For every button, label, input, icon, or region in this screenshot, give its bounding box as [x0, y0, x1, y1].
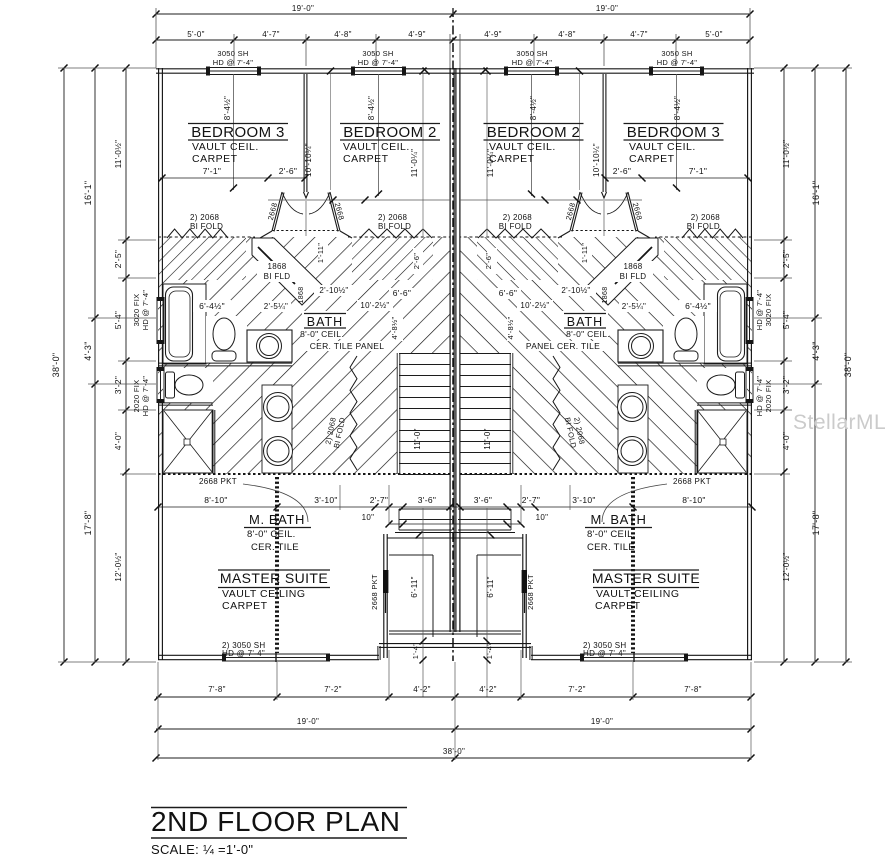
svg-text:1'-11": 1'-11"	[580, 243, 589, 263]
bottom wall master	[531, 654, 752, 656]
svg-text:M. BATH: M. BATH	[591, 512, 647, 527]
svg-text:3'-10": 3'-10"	[572, 495, 595, 505]
svg-text:4'-8": 4'-8"	[558, 30, 575, 39]
toilet 2	[736, 372, 745, 398]
svg-text:17'-8": 17'-8"	[83, 511, 93, 536]
svg-text:2'-10½": 2'-10½"	[319, 286, 348, 295]
sink 1	[629, 334, 654, 359]
bedroom2 closet bifold	[360, 229, 432, 238]
svg-text:2) 2068: 2) 2068	[378, 213, 407, 222]
toilet 1 nook	[663, 316, 704, 363]
svg-text:1868: 1868	[268, 262, 287, 271]
svg-text:10'-2½": 10'-2½"	[360, 301, 389, 310]
1-4 dim	[422, 508, 424, 697]
svg-text:HD @ 7'-4": HD @ 7'-4"	[358, 58, 399, 67]
svg-text:2'-10½": 2'-10½"	[561, 286, 590, 295]
svg-text:PANEL CER. TILE: PANEL CER. TILE	[526, 341, 600, 351]
sink 3	[264, 437, 293, 466]
svg-text:8'-0" CEIL.: 8'-0" CEIL.	[566, 329, 610, 339]
sink 2	[618, 393, 647, 422]
svg-text:12'-0½": 12'-0½"	[114, 552, 123, 581]
svg-text:1868: 1868	[602, 287, 609, 304]
bedroom dim line	[160, 177, 306, 179]
svg-text:4'-8½": 4'-8½"	[390, 316, 399, 339]
svg-text:10'-10¼": 10'-10¼"	[304, 143, 313, 177]
svg-text:CER. TILE: CER. TILE	[251, 542, 299, 553]
party wall centerline	[452, 8, 454, 661]
svg-text:1'-4": 1'-4"	[411, 643, 420, 659]
svg-text:17'-8": 17'-8"	[811, 511, 821, 536]
svg-text:38'-0": 38'-0"	[443, 747, 465, 756]
svg-text:7'-8": 7'-8"	[684, 685, 701, 694]
bathtub	[718, 287, 745, 361]
svg-text:16'-1": 16'-1"	[811, 181, 821, 206]
toilet 2 nook	[163, 368, 213, 403]
svg-text:19'-0": 19'-0"	[596, 4, 618, 13]
svg-text:BI FOLD: BI FOLD	[499, 222, 532, 231]
svg-text:12'-0½": 12'-0½"	[782, 552, 791, 581]
stairwell top wall	[395, 532, 455, 534]
pocket door bar	[383, 570, 388, 593]
svg-text:2) 2068: 2) 2068	[190, 213, 219, 222]
window 3020 FIX	[156, 299, 158, 341]
svg-text:5'-0": 5'-0"	[705, 30, 722, 39]
svg-text:10'-2½": 10'-2½"	[520, 301, 549, 310]
window bed3	[206, 67, 261, 76]
svg-text:2ND FLOOR PLAN: 2ND FLOOR PLAN	[151, 806, 401, 837]
svg-text:5'-4": 5'-4"	[113, 311, 123, 329]
svg-text:19'-0": 19'-0"	[591, 717, 613, 726]
hatch bottom dashed border	[158, 473, 450, 475]
svg-text:7'-8": 7'-8"	[208, 685, 225, 694]
pocket door bar	[522, 570, 527, 593]
svg-text:VAULT CEIL.: VAULT CEIL.	[629, 141, 696, 153]
hall double doors	[628, 192, 638, 231]
lower treads below landing dim	[458, 508, 511, 510]
stairwell west wall	[383, 534, 385, 658]
side extension lines	[58, 67, 156, 69]
svg-text:CER. TILE PANEL: CER. TILE PANEL	[310, 341, 385, 351]
bedroom3 closet bifold	[167, 229, 228, 238]
svg-text:2) 2068: 2) 2068	[503, 213, 532, 222]
stair closet inner walls	[477, 554, 521, 556]
svg-text:BI FOLD: BI FOLD	[378, 222, 411, 231]
svg-text:VAULT CEILING: VAULT CEILING	[596, 588, 680, 600]
svg-text:VAULT CEILING: VAULT CEILING	[222, 588, 306, 600]
stairwell bottom wall	[455, 630, 521, 632]
top wall	[156, 68, 455, 70]
svg-text:BEDROOM 3: BEDROOM 3	[627, 124, 721, 141]
svg-text:1'-4": 1'-4"	[485, 643, 494, 659]
svg-text:BI FOLD: BI FOLD	[190, 222, 223, 231]
svg-text:11'-0¼": 11'-0¼"	[486, 149, 495, 178]
svg-text:7'-2": 7'-2"	[324, 685, 341, 694]
window 2020 FIX	[752, 369, 754, 401]
svg-text:HD @ 7'-4": HD @ 7'-4"	[755, 290, 764, 331]
svg-text:6'-6": 6'-6"	[499, 288, 517, 298]
hatch bottom dashed border	[460, 473, 752, 475]
svg-text:8'-4½": 8'-4½"	[673, 96, 682, 120]
sink counter 1	[618, 330, 663, 362]
mbath dim rows	[455, 506, 752, 508]
leader 2668	[243, 484, 308, 522]
svg-text:4'-7": 4'-7"	[262, 30, 279, 39]
bathtub	[166, 287, 193, 361]
1-4 dim	[486, 508, 488, 697]
svg-text:4'-8½": 4'-8½"	[506, 316, 515, 339]
hall opening dashed sill	[570, 230, 638, 232]
svg-text:BI FLD: BI FLD	[620, 272, 647, 281]
toilet 1	[213, 318, 235, 350]
svg-text:8'-10": 8'-10"	[204, 495, 227, 505]
svg-text:11'-0½": 11'-0½"	[114, 140, 123, 169]
window 2020 FIX	[156, 369, 158, 401]
svg-text:6'-4½": 6'-4½"	[199, 301, 225, 311]
svg-text:3'-6": 3'-6"	[474, 495, 492, 505]
svg-text:CARPET: CARPET	[489, 153, 535, 165]
top dim lines	[156, 13, 750, 15]
svg-text:2'-7": 2'-7"	[522, 495, 540, 505]
svg-text:8'-4½": 8'-4½"	[367, 96, 376, 120]
svg-text:2020 FIX: 2020 FIX	[132, 380, 141, 413]
svg-text:11'-0¼": 11'-0¼"	[410, 149, 419, 178]
stairwell bottom wall	[389, 630, 455, 632]
svg-text:BI FLD: BI FLD	[264, 272, 291, 281]
denser closet hatch strips	[664, 237, 752, 280]
party wall	[459, 68, 461, 632]
svg-text:HD @ 7'-4": HD @ 7'-4"	[141, 290, 150, 331]
stair treads	[460, 353, 513, 474]
svg-text:7'-1": 7'-1"	[203, 166, 221, 176]
bedroom dim line	[604, 177, 750, 179]
window 3020 FIX	[752, 299, 754, 341]
svg-text:BI FOLD: BI FOLD	[687, 222, 720, 231]
vanity counter	[262, 385, 292, 473]
heavy dashed ref master	[631, 477, 635, 653]
svg-text:11'-0½": 11'-0½"	[782, 140, 791, 169]
svg-text:3050 SH: 3050 SH	[362, 49, 393, 58]
window center refs	[676, 74, 678, 190]
svg-text:HD @ 7'-4": HD @ 7'-4"	[141, 376, 150, 417]
svg-text:1868: 1868	[624, 262, 643, 271]
heavy dashed ref master	[275, 477, 279, 653]
hatch top dashed border	[158, 236, 255, 238]
svg-text:BEDROOM 2: BEDROOM 2	[343, 124, 437, 141]
svg-text:VAULT CEIL.: VAULT CEIL.	[192, 141, 259, 153]
svg-text:CARPET: CARPET	[629, 153, 675, 165]
svg-text:8'-0" CEIL.: 8'-0" CEIL.	[587, 529, 636, 540]
svg-text:2'-5¼": 2'-5¼"	[264, 302, 288, 311]
svg-text:HD @ 7'-4": HD @ 7'-4"	[657, 58, 698, 67]
svg-text:VAULT CEIL.: VAULT CEIL.	[489, 141, 556, 153]
svg-text:3'-6": 3'-6"	[418, 495, 436, 505]
sink 3	[618, 437, 647, 466]
svg-text:5'-4": 5'-4"	[781, 311, 791, 329]
svg-text:4'-8": 4'-8"	[334, 30, 351, 39]
bedroom divider wall	[605, 74, 607, 192]
svg-text:11'-0": 11'-0"	[413, 428, 422, 450]
toilet 1	[675, 318, 697, 350]
svg-text:6'-6": 6'-6"	[393, 288, 411, 298]
svg-text:3050 SH: 3050 SH	[217, 49, 248, 58]
sink 2	[264, 393, 293, 422]
hall double doors	[272, 192, 282, 231]
svg-text:6'-4½": 6'-4½"	[685, 301, 711, 311]
denser closet hatch strips	[158, 237, 246, 280]
svg-text:CARPET: CARPET	[343, 153, 389, 165]
svg-text:HD @ 7'-4": HD @ 7'-4"	[755, 376, 764, 417]
svg-text:10'-10¼": 10'-10¼"	[592, 143, 601, 177]
svg-text:3'-2": 3'-2"	[781, 376, 791, 394]
svg-text:4'-9": 4'-9"	[408, 30, 425, 39]
svg-text:8'-10": 8'-10"	[682, 495, 705, 505]
svg-text:4'-3": 4'-3"	[811, 341, 821, 360]
svg-text:10": 10"	[362, 513, 375, 522]
svg-text:SCALE: ¼ =1'-0": SCALE: ¼ =1'-0"	[151, 842, 253, 857]
bottom dim lines	[156, 696, 751, 698]
toilet 2	[166, 372, 175, 398]
svg-text:2'-6": 2'-6"	[484, 253, 493, 269]
master window 3050	[581, 654, 687, 662]
svg-text:BEDROOM 2: BEDROOM 2	[487, 124, 581, 141]
svg-text:2'-5": 2'-5"	[113, 250, 123, 268]
svg-text:4'-9": 4'-9"	[484, 30, 501, 39]
svg-text:1868: 1868	[298, 287, 305, 304]
leader 2668	[602, 484, 667, 522]
bedroom3 closet bifold	[682, 229, 743, 238]
svg-text:2'-5": 2'-5"	[781, 250, 791, 268]
svg-text:4'-2": 4'-2"	[413, 685, 430, 694]
svg-text:2'-6": 2'-6"	[279, 166, 297, 176]
svg-text:11'-0": 11'-0"	[483, 428, 492, 450]
svg-text:2668 PKT: 2668 PKT	[370, 574, 379, 610]
svg-text:19'-0": 19'-0"	[292, 4, 314, 13]
svg-text:M. BATH: M. BATH	[249, 512, 305, 527]
stair treads	[397, 353, 450, 474]
svg-text:8'-0" CEIL.: 8'-0" CEIL.	[300, 329, 344, 339]
svg-text:3'-2": 3'-2"	[113, 376, 123, 394]
shower	[163, 410, 213, 473]
svg-text:10": 10"	[536, 513, 549, 522]
svg-text:2668 PKT: 2668 PKT	[526, 574, 535, 610]
svg-text:1'-11": 1'-11"	[316, 243, 325, 263]
svg-text:BATH: BATH	[307, 315, 343, 329]
svg-text:16'-1": 16'-1"	[83, 181, 93, 206]
svg-text:3'-10": 3'-10"	[314, 495, 337, 505]
toilet 2 nook	[697, 368, 747, 403]
bedroom divider wall	[303, 74, 305, 192]
top wall	[455, 68, 754, 70]
svg-text:BATH: BATH	[567, 315, 603, 329]
tub room	[163, 284, 206, 364]
hatched tile floor band	[158, 237, 450, 474]
svg-text:4'-0": 4'-0"	[113, 432, 123, 450]
vanity counter	[618, 385, 648, 473]
sink counter 1	[247, 330, 292, 362]
bedroom2 closet bifold	[478, 229, 550, 238]
window center refs	[233, 74, 235, 190]
svg-text:2668 PKT: 2668 PKT	[673, 477, 711, 486]
bottom step wall	[377, 646, 379, 660]
sink 1	[257, 334, 282, 359]
svg-text:CARPET: CARPET	[192, 153, 238, 165]
bath entry chute	[588, 238, 658, 305]
window bed2	[351, 67, 406, 76]
svg-text:HD @ 7'-4": HD @ 7'-4"	[512, 58, 553, 67]
svg-text:5'-0": 5'-0"	[187, 30, 204, 39]
title	[151, 807, 407, 809]
svg-text:MASTER SUITE: MASTER SUITE	[220, 570, 328, 586]
svg-text:19'-0": 19'-0"	[297, 717, 319, 726]
svg-text:3050 SH: 3050 SH	[661, 49, 692, 58]
svg-text:38'-0": 38'-0"	[843, 353, 853, 378]
svg-text:StellarMLS: StellarMLS	[793, 411, 885, 434]
hatched tile floor band	[460, 237, 752, 474]
wall bath/mbath	[618, 362, 752, 364]
walk-in closet bifold	[553, 356, 560, 470]
svg-text:CARPET: CARPET	[222, 600, 268, 612]
svg-text:8'-0" CEIL.: 8'-0" CEIL.	[247, 529, 296, 540]
bath entry chute	[252, 238, 322, 305]
window bed2	[504, 67, 559, 76]
lower treads below landing dim	[399, 508, 452, 510]
svg-text:4'-3": 4'-3"	[83, 341, 93, 360]
window bed3	[649, 67, 704, 76]
left wall	[158, 68, 160, 299]
hatch top dashed border	[655, 236, 752, 238]
tub room	[704, 284, 747, 364]
master window 3050	[223, 654, 329, 662]
svg-text:7'-1": 7'-1"	[689, 166, 707, 176]
mbath dim rows	[158, 506, 455, 508]
shower	[697, 410, 747, 473]
bath area texts	[193, 300, 231, 312]
svg-text:6'-11": 6'-11"	[410, 576, 419, 598]
svg-text:HD @ 7'-4": HD @ 7'-4"	[213, 58, 254, 67]
svg-text:2'-6": 2'-6"	[412, 253, 421, 269]
right dim lines	[845, 68, 847, 662]
svg-text:MASTER SUITE: MASTER SUITE	[592, 570, 700, 586]
svg-text:2'-5¼": 2'-5¼"	[622, 302, 646, 311]
left wall	[750, 68, 752, 299]
bottom extension verticals	[157, 662, 159, 760]
svg-text:2020 FIX: 2020 FIX	[764, 380, 773, 413]
svg-text:8'-4½": 8'-4½"	[223, 96, 232, 120]
svg-text:HD @ 7'-4": HD @ 7'-4"	[583, 649, 626, 658]
svg-text:2'-7": 2'-7"	[370, 495, 388, 505]
svg-text:3020 FIX: 3020 FIX	[132, 294, 141, 327]
svg-text:7'-2": 7'-2"	[568, 685, 585, 694]
stairwell top wall	[455, 532, 515, 534]
left dim lines	[63, 68, 65, 662]
svg-text:4'-2": 4'-2"	[479, 685, 496, 694]
bottom wall master	[158, 654, 379, 656]
svg-text:38'-0": 38'-0"	[51, 353, 61, 378]
stairwell west wall	[525, 534, 527, 658]
svg-text:6'-11": 6'-11"	[486, 576, 495, 598]
svg-text:CER. TILE: CER. TILE	[587, 542, 635, 553]
svg-text:8'-4½": 8'-4½"	[529, 96, 538, 120]
svg-text:2'-6": 2'-6"	[613, 166, 631, 176]
svg-text:BEDROOM 3: BEDROOM 3	[191, 124, 285, 141]
svg-text:VAULT CEIL.: VAULT CEIL.	[343, 141, 410, 153]
bottom step wall	[531, 646, 533, 660]
wall bath/mbath	[158, 362, 292, 364]
hall opening dashed sill	[272, 230, 340, 232]
svg-text:2) 2068: 2) 2068	[691, 213, 720, 222]
svg-text:HD @ 7'-4": HD @ 7'-4"	[222, 649, 265, 658]
stair closet inner walls	[389, 554, 433, 556]
walk-in closet bifold	[350, 356, 357, 470]
svg-text:3050 SH: 3050 SH	[516, 49, 547, 58]
party wall	[449, 68, 451, 632]
svg-text:CARPET: CARPET	[595, 600, 641, 612]
svg-text:4'-0": 4'-0"	[781, 432, 791, 450]
svg-text:4'-7": 4'-7"	[630, 30, 647, 39]
chute door label	[257, 261, 297, 282]
svg-text:3020 FIX: 3020 FIX	[764, 294, 773, 327]
svg-text:2668 PKT: 2668 PKT	[199, 477, 237, 486]
toilet 1 nook	[206, 316, 247, 363]
